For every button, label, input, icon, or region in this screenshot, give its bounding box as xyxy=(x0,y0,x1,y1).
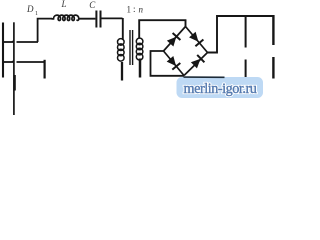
svg-text:n: n xyxy=(139,5,144,15)
svg-text:1: 1 xyxy=(127,5,132,15)
bridge left corner wire down and bottom rail xyxy=(151,51,185,76)
diode VD4 (bottom->right) xyxy=(192,55,205,68)
side top-right xyxy=(186,27,208,53)
svg-text:merlin-igor.ru: merlin-igor.ru xyxy=(184,81,257,97)
svg-text:L: L xyxy=(61,0,67,9)
svg-text:1: 1 xyxy=(35,11,38,17)
svg-text:C: C xyxy=(89,0,96,10)
transformer T1 secondary winding xyxy=(136,38,143,60)
diode VD3 (left->bottom) xyxy=(167,57,180,70)
transformer T1 secondary bottom stub xyxy=(139,59,142,78)
capacitor C plates xyxy=(95,11,97,28)
diode VD2 (top->right) xyxy=(190,33,204,47)
wire C to transformer xyxy=(102,17,123,19)
output capacitor lead (lower) xyxy=(245,60,247,78)
wire riser to top rail xyxy=(38,19,52,42)
transformer T1 core xyxy=(129,30,131,65)
side bottom-right xyxy=(184,53,208,76)
inductor L coil xyxy=(52,15,79,20)
transformer T1 primary bottom lead xyxy=(121,62,123,81)
wire upper input branch xyxy=(2,41,13,43)
input terminal plate (left rail) xyxy=(2,23,4,78)
transformer T1 primary lead down xyxy=(122,18,124,40)
load lead lower xyxy=(272,57,274,79)
diode VD1 (left->top) xyxy=(168,33,181,46)
wire inductor to C xyxy=(79,18,96,20)
wire lower input branch xyxy=(2,61,13,63)
svg-text::: : xyxy=(133,4,136,14)
output capacitor lead (upper) xyxy=(245,16,247,48)
transformer T1 secondary top lead xyxy=(139,20,186,38)
svg-text:D: D xyxy=(26,4,34,14)
junction lower branch xyxy=(11,60,15,63)
load lead upper xyxy=(272,15,274,45)
wire bottom rail over watermark xyxy=(184,76,225,78)
input terminal electrode line xyxy=(13,22,15,115)
wire return stub xyxy=(43,60,45,79)
transformer T1 primary winding xyxy=(118,39,125,61)
bridge right corner wire to output xyxy=(208,16,274,53)
bridge diamond sides xyxy=(164,27,208,76)
bridge top apex stub xyxy=(185,20,187,28)
junction upper branch xyxy=(11,40,15,43)
side left-top xyxy=(164,27,186,52)
side left-bottom xyxy=(164,51,185,76)
watermark box xyxy=(177,77,264,98)
